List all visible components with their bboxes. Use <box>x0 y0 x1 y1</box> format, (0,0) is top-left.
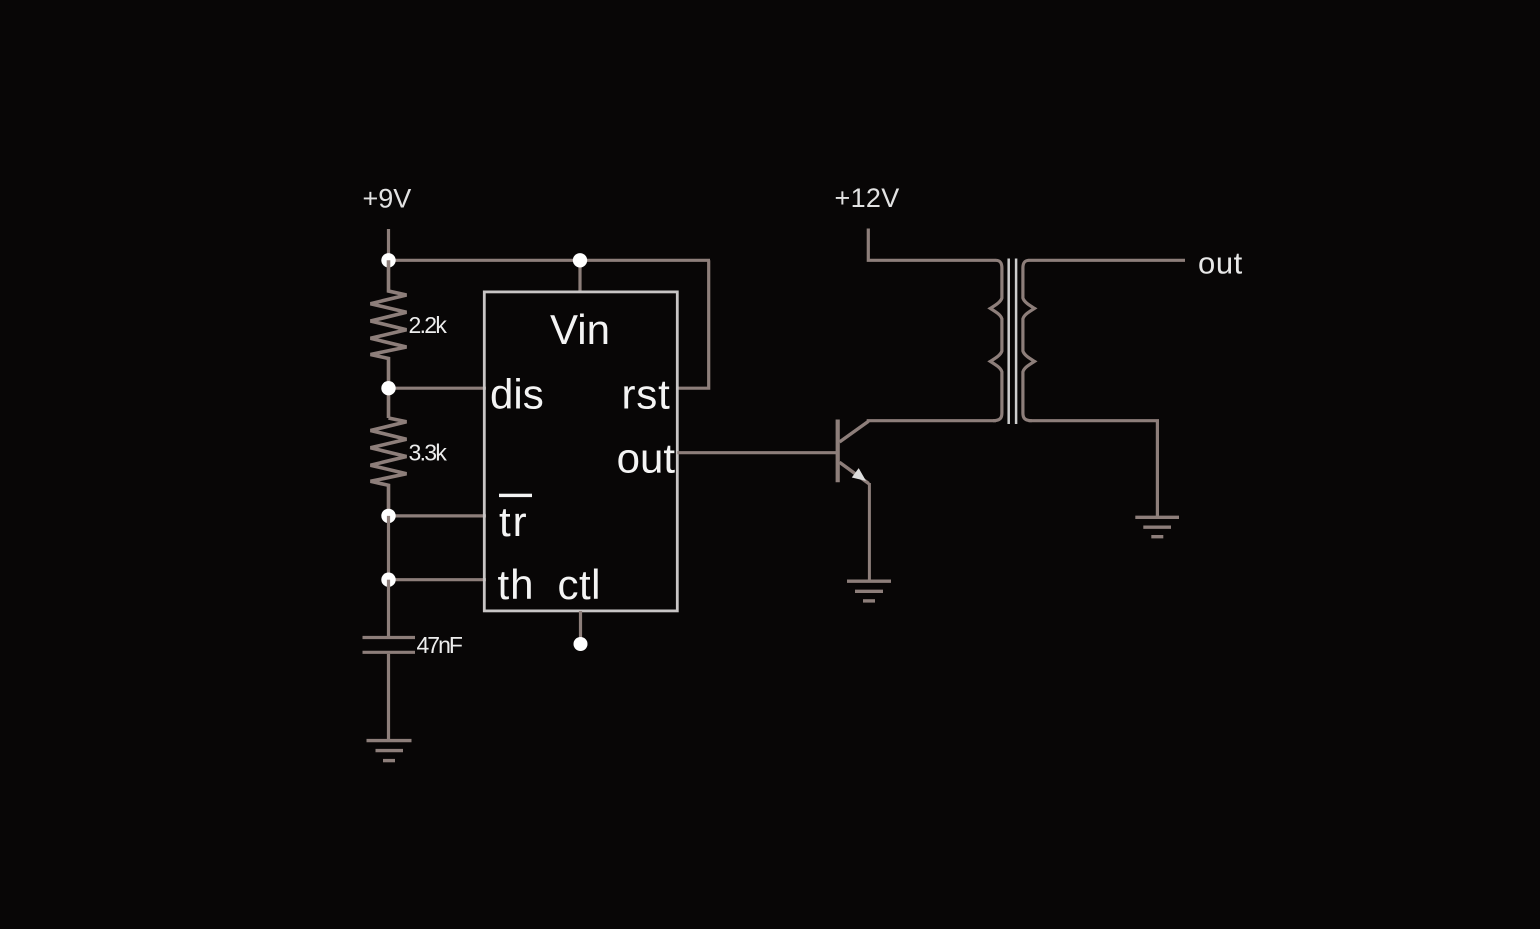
wire top rail <box>389 259 711 262</box>
wire rst loop <box>678 260 709 388</box>
svg-text:3.3k: 3.3k <box>409 440 448 466</box>
transformer T1 primary winding <box>990 260 1002 420</box>
node junction Vin <box>573 253 587 267</box>
svg-text:tr: tr <box>499 498 529 545</box>
svg-text:47nF: 47nF <box>417 632 463 658</box>
wire tr pin <box>389 514 487 517</box>
wire ctl pin stub <box>579 611 582 638</box>
ground right <box>1135 517 1179 536</box>
svg-text:dis: dis <box>490 371 544 418</box>
wire dis pin <box>389 387 487 390</box>
node junction tr <box>381 509 395 523</box>
transformer T1 core <box>1007 259 1010 425</box>
wire secondary top to out <box>1029 259 1186 262</box>
svg-text:2.2k: 2.2k <box>409 312 448 338</box>
pin label tr with overline <box>499 494 532 497</box>
svg-text:rst: rst <box>622 371 671 418</box>
svg-text:+12V: +12V <box>835 183 900 213</box>
wire capacitor to ground <box>387 654 390 740</box>
svg-text:Vin: Vin <box>550 306 610 353</box>
node junction top-left <box>381 253 395 267</box>
node ctl terminal <box>574 637 588 651</box>
transistor Q1 collector diagonal <box>840 421 869 442</box>
svg-text:+9V: +9V <box>363 184 412 214</box>
transistor Q1 emitter arrowhead <box>852 468 866 481</box>
ground under capacitor <box>367 741 412 761</box>
wire th to capacitor <box>387 580 390 636</box>
node junction dis <box>381 381 395 395</box>
svg-text:th: th <box>498 561 535 608</box>
wire +9V lead <box>387 229 390 260</box>
wire +12V lead <box>868 229 996 261</box>
transistor Q1 emitter diagonal <box>840 462 869 483</box>
resistor R1 2.2k <box>371 260 407 418</box>
svg-text:ctl: ctl <box>558 561 602 608</box>
wire collector to transformer primary <box>868 419 996 423</box>
transformer T1 secondary winding <box>1023 260 1035 420</box>
wire Vin pin drop <box>578 260 581 292</box>
svg-text:out: out <box>617 435 676 482</box>
svg-text:out: out <box>1198 246 1243 281</box>
wire out pin to transistor base <box>677 451 836 454</box>
transistor Q1 base bar <box>836 420 840 483</box>
wire divider to th <box>387 516 390 580</box>
ground under transistor <box>847 581 891 601</box>
node junction th <box>381 573 395 587</box>
wire th pin <box>389 578 487 581</box>
resistor R2 3.3k <box>371 418 407 516</box>
wire emitter to ground <box>868 483 871 580</box>
wire secondary bottom to ground <box>1029 421 1158 517</box>
capacitor C1 47nF <box>363 636 416 639</box>
IC U1 555 box <box>484 292 677 611</box>
